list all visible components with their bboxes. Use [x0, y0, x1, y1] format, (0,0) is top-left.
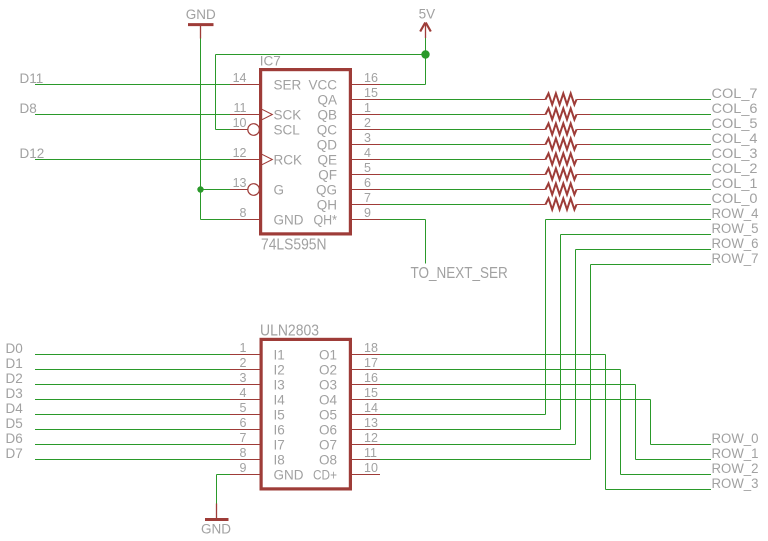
svg-text:74LS595N: 74LS595N	[261, 237, 327, 254]
svg-text:COL_7: COL_7	[712, 86, 758, 101]
svg-text:ROW_0: ROW_0	[712, 431, 759, 446]
svg-text:D8: D8	[20, 101, 37, 116]
svg-text:SCK: SCK	[274, 107, 302, 122]
svg-text:QE: QE	[317, 152, 337, 167]
svg-text:I3: I3	[274, 377, 285, 392]
svg-text:ROW_7: ROW_7	[712, 251, 759, 266]
svg-text:9: 9	[364, 206, 371, 220]
svg-text:8: 8	[240, 206, 247, 220]
svg-text:5V: 5V	[419, 7, 436, 22]
svg-text:6: 6	[364, 176, 371, 190]
svg-text:O3: O3	[319, 377, 337, 392]
svg-text:COL_1: COL_1	[712, 176, 758, 191]
svg-text:GND: GND	[274, 212, 304, 227]
svg-text:15: 15	[364, 86, 378, 100]
svg-text:COL_4: COL_4	[712, 131, 759, 146]
svg-text:9: 9	[240, 461, 247, 475]
svg-text:ROW_5: ROW_5	[712, 221, 759, 236]
svg-text:7: 7	[364, 191, 371, 205]
svg-text:D6: D6	[6, 431, 23, 446]
svg-text:3: 3	[364, 131, 371, 145]
svg-text:10: 10	[233, 116, 247, 130]
svg-text:14: 14	[233, 71, 247, 85]
svg-text:12: 12	[364, 431, 378, 445]
svg-text:SER: SER	[274, 77, 302, 92]
svg-text:D0: D0	[6, 341, 23, 356]
svg-text:VCC: VCC	[308, 77, 337, 92]
svg-text:CD+: CD+	[313, 467, 337, 482]
svg-text:6: 6	[240, 416, 247, 430]
svg-text:ROW_2: ROW_2	[712, 461, 759, 476]
svg-text:13: 13	[364, 416, 378, 430]
svg-text:O2: O2	[319, 362, 337, 377]
svg-text:12: 12	[233, 146, 247, 160]
svg-text:16: 16	[364, 71, 378, 85]
svg-text:COL_5: COL_5	[712, 116, 758, 131]
svg-text:COL_2: COL_2	[712, 161, 758, 176]
svg-text:14: 14	[364, 401, 378, 415]
svg-text:QC: QC	[317, 122, 338, 137]
svg-text:GND: GND	[186, 7, 216, 22]
svg-text:GND: GND	[274, 467, 304, 482]
svg-text:D7: D7	[6, 446, 23, 461]
svg-text:1: 1	[364, 101, 371, 115]
svg-text:18: 18	[364, 341, 378, 355]
svg-text:3: 3	[240, 371, 247, 385]
svg-text:O1: O1	[319, 347, 337, 362]
svg-text:D11: D11	[20, 71, 44, 86]
svg-text:O7: O7	[319, 437, 337, 452]
svg-text:15: 15	[364, 386, 378, 400]
svg-text:D2: D2	[6, 371, 23, 386]
svg-text:8: 8	[240, 446, 247, 460]
svg-text:D3: D3	[6, 386, 23, 401]
svg-text:QH: QH	[317, 197, 337, 212]
svg-text:ULN2803: ULN2803	[260, 323, 319, 340]
svg-text:I6: I6	[274, 422, 285, 437]
svg-text:I8: I8	[274, 452, 285, 467]
svg-text:SCL: SCL	[274, 122, 301, 137]
svg-text:I2: I2	[274, 362, 285, 377]
svg-text:COL_3: COL_3	[712, 146, 758, 161]
svg-text:ROW_1: ROW_1	[712, 446, 759, 461]
svg-text:O8: O8	[319, 452, 337, 467]
svg-text:ROW_4: ROW_4	[712, 206, 759, 221]
svg-text:O6: O6	[319, 422, 337, 437]
svg-text:QH*: QH*	[314, 212, 338, 227]
svg-text:7: 7	[240, 431, 247, 445]
svg-text:ROW_3: ROW_3	[712, 476, 759, 491]
svg-text:TO_NEXT_SER: TO_NEXT_SER	[411, 265, 508, 282]
svg-text:QG: QG	[316, 182, 337, 197]
svg-text:O5: O5	[319, 407, 337, 422]
svg-text:13: 13	[233, 176, 247, 190]
svg-text:4: 4	[364, 146, 371, 160]
svg-text:16: 16	[364, 371, 378, 385]
svg-text:I7: I7	[274, 437, 285, 452]
svg-text:17: 17	[364, 356, 378, 370]
svg-text:D1: D1	[6, 356, 23, 371]
svg-text:COL_0: COL_0	[712, 191, 758, 206]
svg-text:QD: QD	[317, 137, 338, 152]
svg-text:1: 1	[240, 341, 247, 355]
svg-text:QF: QF	[318, 167, 337, 182]
svg-text:G: G	[274, 182, 285, 197]
svg-text:11: 11	[364, 446, 377, 460]
svg-text:ROW_6: ROW_6	[712, 236, 759, 251]
svg-text:4: 4	[240, 386, 247, 400]
svg-text:I5: I5	[274, 407, 285, 422]
svg-text:D5: D5	[6, 416, 23, 431]
svg-text:11: 11	[234, 101, 247, 115]
svg-text:QB: QB	[317, 107, 337, 122]
svg-text:D12: D12	[20, 146, 45, 161]
svg-text:2: 2	[240, 356, 247, 370]
svg-text:I4: I4	[274, 392, 286, 407]
svg-text:2: 2	[364, 116, 371, 130]
svg-text:IC7: IC7	[260, 54, 281, 69]
svg-text:5: 5	[364, 161, 371, 175]
svg-text:COL_6: COL_6	[712, 101, 758, 116]
svg-text:GND: GND	[201, 522, 231, 537]
svg-text:D4: D4	[6, 401, 24, 416]
svg-text:O4: O4	[319, 392, 338, 407]
svg-text:I1: I1	[274, 347, 285, 362]
svg-text:RCK: RCK	[274, 152, 303, 167]
svg-text:QA: QA	[317, 92, 337, 107]
svg-text:5: 5	[240, 401, 247, 415]
svg-text:10: 10	[364, 461, 378, 475]
